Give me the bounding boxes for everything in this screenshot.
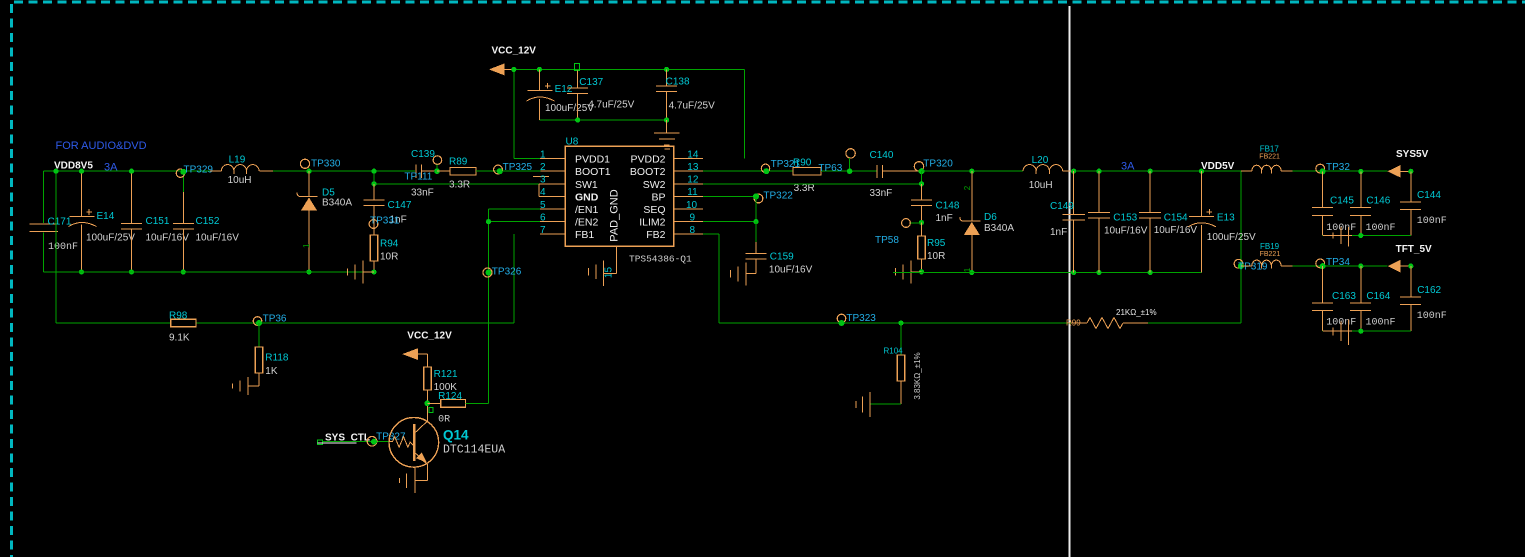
svg-text:VDD5V: VDD5V [1201, 161, 1235, 172]
svg-text:BOOT1: BOOT1 [575, 166, 611, 178]
pin 15 pad gnd stub [604, 246, 617, 278]
svg-text:VCC_12V: VCC_12V [492, 46, 537, 57]
svg-text:1: 1 [540, 149, 546, 160]
svg-text:C153: C153 [1113, 213, 1137, 224]
svg-text:3.3R: 3.3R [449, 179, 470, 190]
svg-text:FB2: FB2 [646, 229, 665, 241]
resistor R89 3.3R [437, 156, 541, 190]
svg-text:/EN1: /EN1 [575, 204, 599, 216]
svg-text:11: 11 [687, 187, 698, 198]
svg-text:1: 1 [963, 267, 972, 272]
resistor R94 10R [370, 235, 399, 275]
svg-text:3: 3 [540, 175, 546, 186]
svg-text:C149: C149 [1050, 201, 1074, 212]
testpoint TP319 [1234, 259, 1268, 272]
svg-text:10uF/16V: 10uF/16V [1104, 225, 1148, 236]
wire FB1 net bottom rail [56, 234, 514, 323]
pin names U8 [575, 154, 611, 242]
svg-text:C162: C162 [1417, 285, 1441, 296]
svg-text:3A: 3A [104, 162, 118, 174]
svg-text:100uF/25V: 100uF/25V [86, 233, 135, 244]
svg-text:10R: 10R [927, 251, 945, 262]
svg-text:TP36: TP36 [263, 313, 287, 324]
svg-text:TP32: TP32 [1326, 162, 1350, 173]
resistor R95 10R [918, 223, 946, 275]
transistor Q14 DTC114EUA [389, 403, 505, 480]
capacitor E14 electrolytic [69, 169, 136, 275]
svg-text:C164: C164 [1366, 291, 1390, 302]
svg-text:FB17: FB17 [1260, 145, 1280, 154]
svg-text:3.83KΩ_±1%: 3.83KΩ_±1% [913, 352, 922, 399]
ground below R104 [856, 392, 901, 417]
svg-text:R98: R98 [169, 310, 188, 321]
testpoint TP32 [1316, 162, 1351, 175]
svg-text:TP34: TP34 [1326, 257, 1350, 268]
ground on TFT_5V cap bottom [1323, 320, 1352, 346]
ground below Q14 [399, 468, 427, 494]
wire VDD5V rail [1071, 169, 1241, 174]
svg-text:4: 4 [540, 187, 546, 198]
svg-text:PVDD2: PVDD2 [630, 154, 665, 166]
svg-text:TP323: TP323 [846, 313, 876, 324]
svg-text:5: 5 [540, 200, 546, 211]
ferrite bead FB19 FB221 [1241, 242, 1388, 268]
svg-text:/EN2: /EN2 [575, 217, 599, 229]
ic U8 left pin stubs [533, 159, 565, 235]
svg-text:6: 6 [540, 212, 546, 223]
svg-text:FB221: FB221 [1260, 251, 1281, 258]
svg-text:10uF/16V: 10uF/16V [1154, 225, 1198, 236]
svg-text:100nF: 100nF [1366, 318, 1396, 329]
svg-text:100nF: 100nF [1417, 216, 1447, 227]
svg-text:R90: R90 [793, 157, 812, 168]
svg-text:ILIM2: ILIM2 [639, 217, 665, 229]
svg-text:R118: R118 [265, 353, 289, 364]
svg-text:R89: R89 [449, 156, 468, 167]
svg-text:8: 8 [690, 225, 696, 236]
capacitor C154 10uF/16V [1139, 171, 1197, 272]
capacitor C163 [1312, 266, 1356, 331]
svg-text:TP329: TP329 [184, 164, 214, 175]
svg-text:1nF: 1nF [936, 213, 953, 224]
svg-text:13: 13 [687, 162, 699, 173]
capacitor C146 [1350, 169, 1395, 236]
capacitor C162 [1400, 266, 1447, 331]
svg-text:C171: C171 [48, 217, 72, 228]
diode D5 B340A schottky [297, 169, 352, 275]
page boundary white vertical line [1069, 6, 1071, 557]
svg-text:D6: D6 [984, 212, 997, 223]
svg-text:C159: C159 [770, 251, 794, 262]
power symbol TFT_5V arrow [1388, 244, 1432, 273]
svg-text:VCC_12V: VCC_12V [407, 331, 452, 342]
resistor R99 21K zigzag [1066, 308, 1241, 329]
testpoint TP321 [761, 159, 800, 174]
svg-text:B340A: B340A [984, 223, 1014, 234]
svg-text:10uH: 10uH [228, 175, 252, 186]
testpoint TP58 [875, 219, 922, 246]
svg-text:100uF/25V: 100uF/25V [1207, 232, 1256, 243]
junction R121 R124 collector node [424, 401, 432, 413]
inductor L19 10uH [210, 154, 273, 186]
power symbol VCC_12V lower [402, 331, 452, 367]
svg-text:TP320: TP320 [923, 159, 953, 170]
resistor R104 3.83K [884, 320, 923, 404]
ground below C159 [731, 263, 757, 286]
svg-text:7: 7 [540, 225, 546, 236]
svg-text:TP326: TP326 [492, 266, 522, 277]
ground below R118 [233, 377, 260, 395]
wire TP36 to R118 [258, 323, 260, 347]
power symbol VCC_12V top [489, 46, 536, 76]
svg-text:100nF: 100nF [1417, 311, 1447, 322]
svg-text:TP319: TP319 [1238, 262, 1268, 273]
pin numbers right 14-8 [686, 149, 699, 236]
svg-text:9.1K: 9.1K [169, 332, 190, 343]
resistor R121 100K [424, 367, 458, 403]
wire SYS_CTL to Q14 base [323, 441, 391, 443]
svg-text:33nF: 33nF [411, 188, 434, 199]
svg-text:R104: R104 [884, 346, 904, 355]
svg-text:TP111: TP111 [404, 172, 432, 183]
svg-text:E14: E14 [97, 211, 115, 222]
svg-text:SW1: SW1 [575, 179, 598, 191]
capacitor E13 electrolytic [1188, 171, 1256, 272]
svg-text:100nF: 100nF [1366, 223, 1396, 234]
svg-text:R99: R99 [1066, 319, 1081, 328]
svg-text:SYS5V: SYS5V [1396, 149, 1429, 160]
op-amp U8 TPS54386-Q1 ic body [565, 137, 692, 265]
svg-text:FOR AUDIO&DVD: FOR AUDIO&DVD [56, 140, 147, 152]
ground on SYS5V cap bottom [1323, 227, 1352, 247]
capacitor C152 [173, 171, 239, 274]
svg-text:L19: L19 [229, 154, 246, 165]
svg-text:2: 2 [963, 185, 972, 190]
ground below C138 [654, 120, 680, 145]
ground at pin 15 [589, 261, 617, 287]
testpoint TP331 [369, 216, 400, 229]
svg-text:C147: C147 [388, 200, 412, 211]
svg-text:TPS54386-Q1: TPS54386-Q1 [629, 254, 692, 265]
capacitor C151 [121, 169, 189, 275]
svg-text:PVDD1: PVDD1 [575, 154, 610, 166]
testpoint TP34 [1316, 257, 1351, 269]
svg-text:C145: C145 [1330, 196, 1354, 207]
svg-text:100nF: 100nF [48, 242, 78, 253]
capacitor C159 10uF/16V [746, 222, 813, 276]
wire GND bottom rail left section [43, 271, 374, 273]
svg-text:10uF/16V: 10uF/16V [146, 233, 190, 244]
capacitor E12 electrolytic [527, 67, 595, 120]
svg-text:R95: R95 [927, 238, 946, 249]
svg-text:TP58: TP58 [875, 235, 899, 246]
ferrite bead FB17 FB221 [1241, 145, 1388, 174]
svg-text:PAD_GND: PAD_GND [609, 189, 621, 241]
capacitor C144 [1400, 171, 1447, 235]
border dashed top edge [14, 1, 1525, 4]
svg-text:100uF/25V: 100uF/25V [545, 103, 594, 114]
junction at x55.9 rail [53, 169, 58, 174]
svg-text:C151: C151 [146, 216, 170, 227]
capacitor C147 snubber [364, 184, 412, 235]
svg-text:0R: 0R [438, 415, 450, 426]
svg-text:C148: C148 [936, 201, 960, 212]
svg-text:FB1: FB1 [575, 229, 594, 241]
testpoint TP326 [483, 266, 522, 277]
svg-text:TP325: TP325 [503, 162, 533, 173]
pin numbers left 1-7 [540, 149, 546, 236]
svg-text:10uH: 10uH [1029, 180, 1053, 191]
testpoint TP329 [176, 164, 213, 177]
svg-text:4.7uF/25V: 4.7uF/25V [669, 101, 715, 112]
svg-text:BP: BP [651, 191, 665, 203]
svg-text:C137: C137 [579, 77, 603, 88]
svg-text:C146: C146 [1366, 196, 1390, 207]
capacitor C137 [567, 64, 634, 123]
svg-text:10: 10 [686, 200, 698, 211]
svg-text:TP322: TP322 [763, 190, 793, 201]
testpoint TP327 [367, 431, 406, 446]
wire BP pin11 to TP322 [703, 195, 756, 197]
svg-text:C138: C138 [666, 77, 690, 88]
wire VDD8V5 main rail left section [43, 170, 415, 172]
wire VCC_12V loop top [511, 67, 745, 159]
svg-text:Q14: Q14 [443, 428, 469, 443]
wire SYS5V cap bottom [1323, 233, 1411, 238]
svg-text:L20: L20 [1032, 155, 1049, 166]
wire feedback vertical VDD5V to R99 [1240, 171, 1242, 323]
ground left of R95 [896, 261, 922, 284]
svg-text:12: 12 [687, 175, 699, 186]
capacitor C153 10uF/16V [1088, 171, 1148, 272]
resistor R118 1K [255, 347, 289, 386]
svg-text:C154: C154 [1164, 213, 1188, 224]
svg-text:SEQ: SEQ [643, 204, 665, 216]
testpoint TP63 [818, 149, 855, 174]
power symbol SYS5V arrow [1388, 149, 1429, 178]
svg-text:VDD8V5: VDD8V5 [54, 161, 93, 172]
testpoint TP320 [914, 159, 953, 175]
resistor R90 3.3R [793, 157, 877, 194]
wire SW1 branch to C147 [371, 169, 539, 187]
testpoint TP330 [300, 159, 341, 170]
svg-text:FB19: FB19 [1260, 242, 1280, 251]
svg-text:C139: C139 [411, 149, 435, 160]
testpoint TP323 [837, 313, 876, 326]
svg-text:R124: R124 [438, 391, 462, 402]
border dashed left edge [10, 4, 13, 557]
svg-text:TFT_5V: TFT_5V [1396, 244, 1432, 255]
svg-text:2: 2 [540, 162, 546, 173]
wire SW2 rail to L20 [922, 170, 1024, 172]
svg-text:3.3R: 3.3R [794, 183, 815, 194]
capacitor C149 1nF [1050, 171, 1085, 272]
wire ILIM2 pin9 joins BP vertical [703, 196, 759, 224]
svg-text:1nF: 1nF [1050, 227, 1067, 238]
wire left vertical with C171 [42, 171, 44, 272]
wire TFT_5V cap bottom [1323, 329, 1411, 334]
capacitor C138 [656, 67, 715, 123]
wire FB2 pin8 down to bottom net [703, 234, 1071, 323]
svg-text:TP330: TP330 [311, 159, 341, 170]
ic U8 right pin stubs [674, 159, 703, 235]
svg-text:SW2: SW2 [643, 179, 666, 191]
wire R124 to EN pins [466, 209, 541, 403]
capacitor C164 [1350, 264, 1395, 332]
svg-text:14: 14 [687, 149, 699, 160]
capacitor C171 [30, 217, 79, 254]
svg-text:33nF: 33nF [870, 188, 893, 199]
svg-text:9: 9 [690, 212, 696, 223]
svg-text:TP331: TP331 [370, 216, 400, 227]
svg-text:GND: GND [575, 191, 599, 203]
svg-text:DTC114EUA: DTC114EUA [443, 444, 505, 457]
svg-text:21KΩ_±1%: 21KΩ_±1% [1116, 308, 1157, 317]
svg-text:TP63: TP63 [818, 163, 842, 174]
inductor L20 10uH [1023, 155, 1074, 191]
svg-text:C140: C140 [870, 150, 894, 161]
svg-text:C152: C152 [196, 216, 220, 227]
svg-text:B340A: B340A [322, 198, 352, 209]
wire SW2 row pin12 [703, 171, 924, 186]
resistor R98 9.1K [169, 310, 196, 343]
svg-text:10uF/16V: 10uF/16V [196, 233, 240, 244]
svg-text:1: 1 [302, 243, 311, 248]
capacitor C145 [1312, 171, 1356, 235]
svg-text:4.7uF/25V: 4.7uF/25V [588, 100, 634, 111]
ground sideways at left bottom rail [348, 261, 375, 284]
testpoint TP322 [753, 190, 793, 203]
resistor R124 0R [428, 391, 466, 426]
svg-text:10uF/16V: 10uF/16V [769, 264, 813, 275]
svg-text:3A: 3A [1121, 161, 1135, 173]
svg-text:BOOT2: BOOT2 [630, 166, 666, 178]
svg-text:U8: U8 [566, 137, 579, 148]
capacitor C140 33nF series [870, 150, 922, 199]
svg-text:1K: 1K [265, 366, 278, 377]
capacitor C148 1nF [911, 184, 960, 225]
svg-text:E13: E13 [1217, 213, 1235, 224]
svg-text:R121: R121 [434, 369, 458, 380]
svg-text:15: 15 [604, 267, 615, 279]
wire FB1 net left vertical [55, 171, 57, 323]
svg-text:C144: C144 [1417, 190, 1441, 201]
svg-text:10R: 10R [380, 252, 398, 263]
wire BOOT2 row pin13 [703, 170, 793, 172]
testpoint TP325 [494, 162, 533, 174]
svg-text:FB221: FB221 [1259, 154, 1280, 161]
wire VCC loop bottom [539, 119, 666, 121]
testpoint circle above C139 junction [433, 156, 442, 174]
testpoint TP36 [253, 313, 287, 326]
svg-text:C163: C163 [1332, 291, 1356, 302]
capacitor C139 33nF series [404, 149, 436, 199]
wire GND bottom rail right section [893, 270, 1201, 275]
node SYS_CTL label [318, 433, 370, 445]
diode D6 B340A schottky [960, 169, 1015, 276]
svg-text:R94: R94 [380, 239, 399, 250]
